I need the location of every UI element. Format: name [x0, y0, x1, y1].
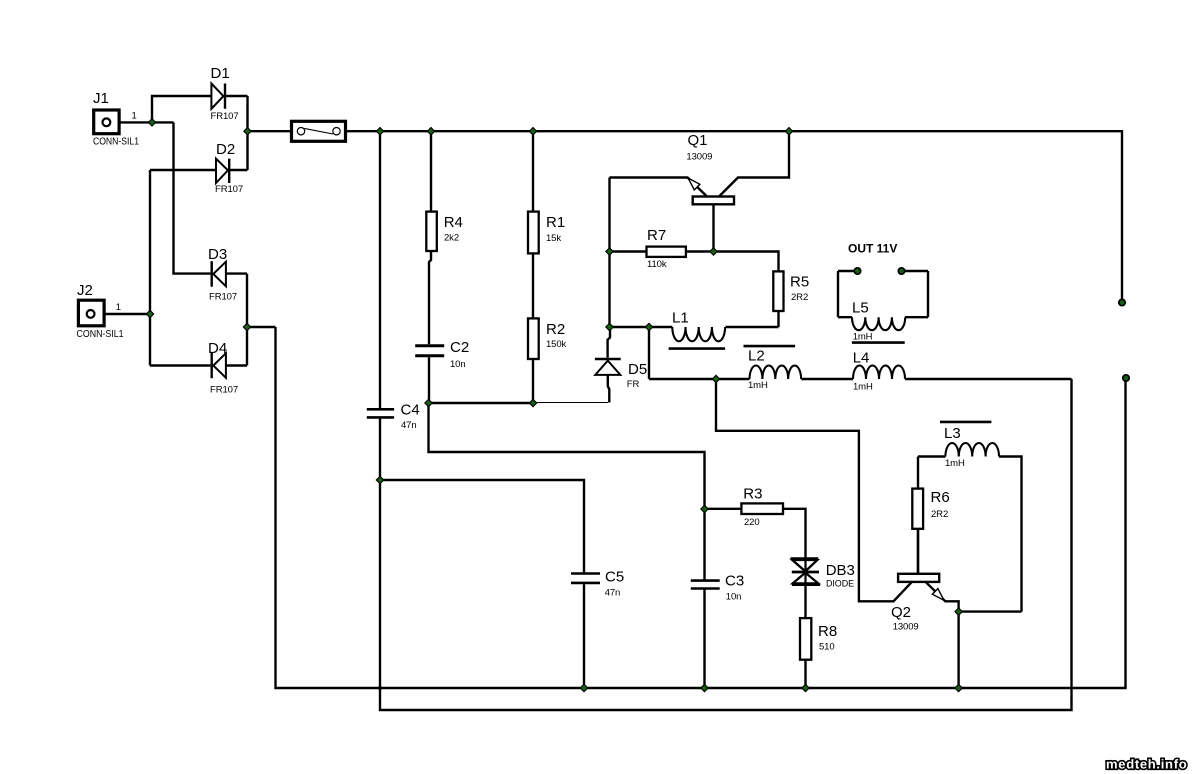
- svg-text:L3: L3: [944, 425, 961, 442]
- svg-text:10n: 10n: [450, 359, 466, 370]
- svg-text:D1: D1: [211, 65, 230, 82]
- svg-text:CONN-SIL1: CONN-SIL1: [77, 329, 124, 340]
- svg-text:DB3: DB3: [826, 562, 855, 579]
- svg-text:R5: R5: [790, 274, 809, 291]
- svg-text:J1: J1: [93, 90, 109, 107]
- svg-text:13009: 13009: [893, 622, 919, 633]
- svg-text:FR107: FR107: [209, 292, 237, 303]
- svg-text:R1: R1: [546, 214, 565, 231]
- svg-text:L2: L2: [748, 348, 765, 365]
- svg-text:R6: R6: [931, 489, 950, 506]
- svg-text:R4: R4: [444, 214, 463, 231]
- svg-text:2R2: 2R2: [791, 292, 808, 303]
- svg-text:CONN-SIL1: CONN-SIL1: [93, 137, 139, 148]
- svg-text:1mH: 1mH: [748, 380, 768, 391]
- svg-text:L4: L4: [853, 350, 870, 367]
- svg-text:1mH: 1mH: [853, 332, 873, 343]
- svg-text:R7: R7: [647, 227, 666, 244]
- svg-text:C3: C3: [725, 573, 744, 590]
- svg-text:R2: R2: [546, 321, 565, 338]
- svg-text:L5: L5: [852, 300, 869, 317]
- svg-text:1mH: 1mH: [853, 382, 873, 393]
- svg-text:1mH: 1mH: [945, 458, 965, 469]
- svg-text:2R2: 2R2: [931, 509, 948, 520]
- svg-text:D4: D4: [208, 340, 227, 357]
- svg-text:13009: 13009: [686, 152, 712, 163]
- svg-text:Q1: Q1: [688, 132, 708, 149]
- svg-text:D5: D5: [628, 361, 647, 378]
- svg-text:FR107: FR107: [210, 385, 238, 396]
- svg-text:15k: 15k: [546, 233, 561, 244]
- svg-text:J2: J2: [77, 282, 93, 299]
- svg-text:10n: 10n: [726, 592, 742, 603]
- svg-text:FR107: FR107: [211, 111, 239, 122]
- svg-text:medteh.info: medteh.info: [1106, 757, 1187, 772]
- svg-text:L1: L1: [672, 310, 689, 327]
- svg-text:D3: D3: [208, 246, 227, 263]
- svg-text:FR107: FR107: [215, 184, 243, 195]
- svg-text:C4: C4: [401, 402, 420, 419]
- svg-text:D2: D2: [216, 141, 235, 158]
- svg-text:110k: 110k: [647, 259, 667, 270]
- svg-text:1: 1: [116, 302, 121, 313]
- svg-text:DIODE: DIODE: [826, 579, 854, 590]
- svg-text:C5: C5: [605, 569, 624, 586]
- svg-text:Q2: Q2: [891, 604, 911, 621]
- svg-text:R3: R3: [743, 486, 762, 503]
- svg-text:510: 510: [819, 642, 835, 653]
- svg-text:47n: 47n: [401, 420, 417, 431]
- svg-text:OUT 11V: OUT 11V: [848, 241, 897, 255]
- svg-text:47n: 47n: [605, 588, 621, 599]
- svg-text:FR: FR: [627, 379, 640, 390]
- svg-text:220: 220: [744, 517, 760, 528]
- svg-text:1: 1: [132, 110, 137, 121]
- svg-text:2k2: 2k2: [444, 233, 459, 244]
- svg-text:150k: 150k: [546, 339, 567, 350]
- svg-text:C2: C2: [450, 339, 469, 356]
- svg-text:R8: R8: [818, 623, 837, 640]
